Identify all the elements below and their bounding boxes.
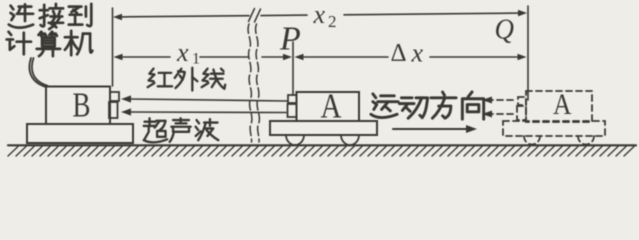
svg-text:x: x [176, 38, 189, 67]
svg-text:B: B [73, 86, 91, 125]
svg-text:A: A [553, 88, 572, 121]
svg-text:x: x [313, 0, 326, 29]
svg-text:x: x [411, 39, 424, 68]
svg-text:Q: Q [495, 15, 515, 46]
svg-text:1: 1 [192, 51, 200, 68]
svg-text:2: 2 [328, 12, 337, 31]
svg-text:P: P [279, 21, 301, 58]
svg-text:Δ: Δ [391, 40, 407, 67]
svg-text:A: A [321, 87, 343, 126]
